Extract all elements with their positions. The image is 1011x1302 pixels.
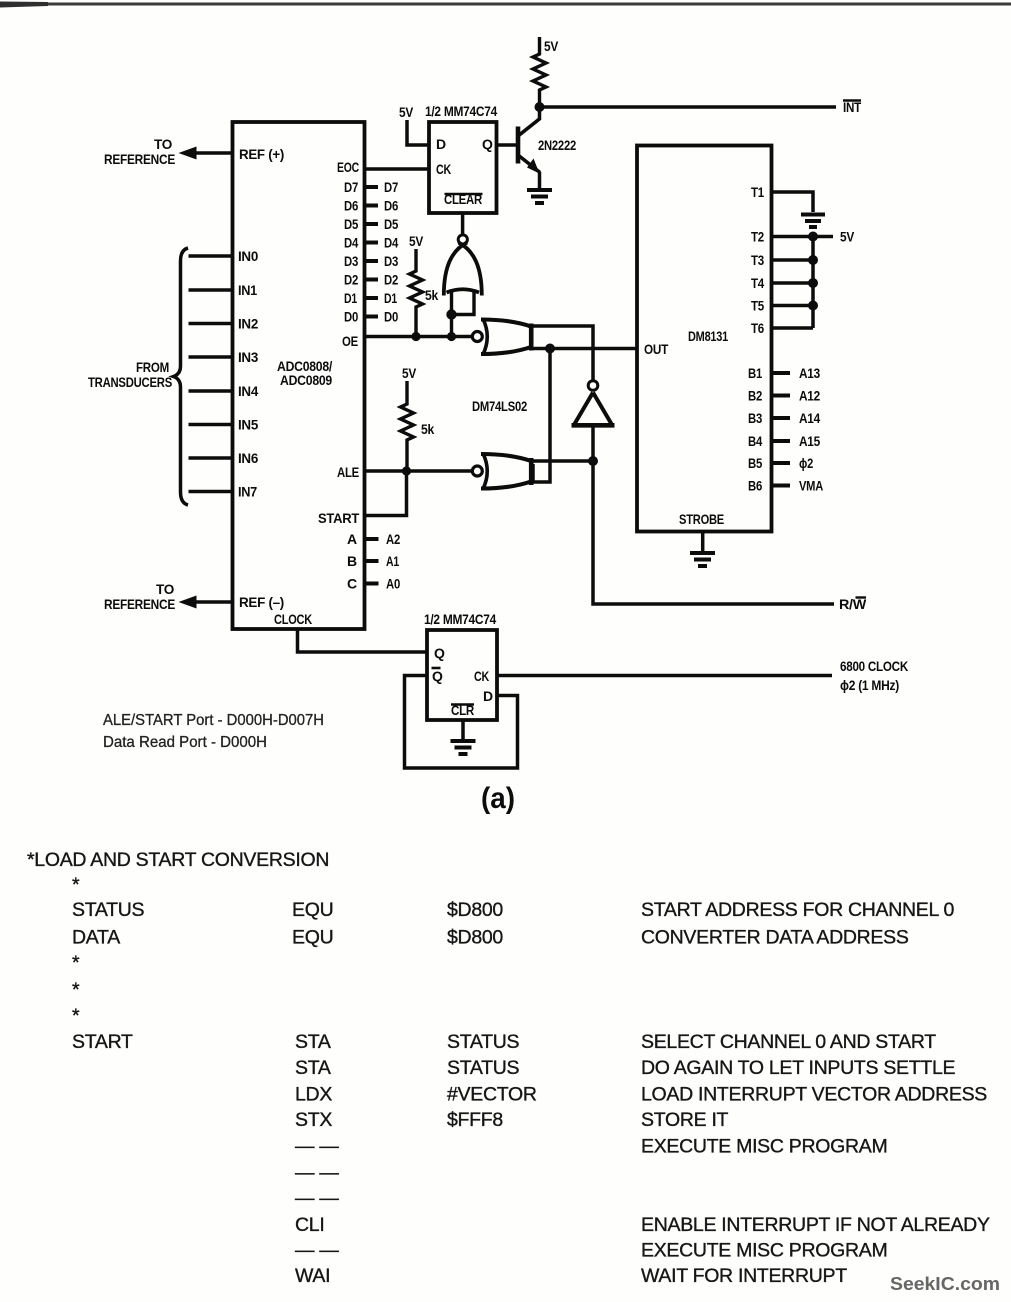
svg-text:FROM: FROM: [136, 359, 169, 375]
wire D6 stub: [365, 204, 379, 208]
wire U4 CLR to ground: [461, 720, 465, 739]
wire G3 feedback staple from G2 output: [533, 349, 550, 483]
ground at T1: [801, 215, 825, 228]
net label D3: [384, 253, 398, 269]
wire D3 stub: [365, 259, 379, 263]
svg-text:EOC: EOC: [337, 159, 359, 175]
pin label Qbar (U4): [432, 668, 444, 684]
assembly line STA STATUS: [295, 1057, 956, 1079]
svg-text:D5: D5: [344, 216, 358, 232]
wire T1 to ground: [772, 192, 814, 212]
svg-text:ENABLE INTERRUPT IF NOT ALREAD: ENABLE INTERRUPT IF NOT ALREADY: [641, 1214, 990, 1236]
junction T3 bus: [808, 255, 818, 265]
svg-text:Q: Q: [432, 668, 443, 684]
svg-text:T4: T4: [751, 275, 764, 291]
svg-text:D0: D0: [344, 309, 358, 325]
net label D5: [384, 216, 398, 232]
svg-text:D5: D5: [384, 216, 398, 232]
svg-text:*: *: [72, 874, 80, 896]
svg-text:TO: TO: [154, 136, 172, 152]
wire inverter input from G3 output node: [591, 426, 595, 462]
brace for transducer inputs: [174, 248, 189, 505]
svg-text:WAIT FOR INTERRUPT: WAIT FOR INTERRUPT: [641, 1265, 847, 1287]
wire C stub: [365, 582, 379, 586]
pin label IN7: [238, 484, 257, 500]
wire REF (-) lead: [190, 600, 233, 603]
pin label IN3: [238, 349, 258, 365]
pin label D3 (inside): [344, 253, 358, 269]
assembly line dashes 1: [295, 1136, 887, 1158]
svg-text:DM8131: DM8131: [688, 328, 728, 344]
svg-text:— —: — —: [295, 1240, 339, 1262]
svg-text:IN2: IN2: [238, 316, 258, 332]
wire D4 stub: [365, 241, 379, 245]
svg-text:ϕ2: ϕ2: [799, 455, 813, 471]
svg-text:IN7: IN7: [238, 484, 257, 500]
wire G3 output to inverter / R-W node: [532, 459, 594, 463]
pin label ALE: [337, 464, 359, 480]
pin label D0 (inside): [344, 309, 358, 325]
wire T4 to bus: [772, 281, 814, 285]
wire T2-T6 bus: [811, 237, 815, 329]
svg-text:DO AGAIN TO LET INPUTS SETTLE: DO AGAIN TO LET INPUTS SETTLE: [641, 1057, 956, 1079]
svg-text:T2: T2: [751, 229, 764, 245]
net label D0: [384, 309, 398, 325]
svg-text:2N2222: 2N2222: [538, 137, 576, 153]
svg-text:D4: D4: [344, 235, 358, 251]
svg-text:C: C: [347, 576, 357, 592]
wire U2 CLEAR to gate G1 output: [461, 213, 465, 235]
assembly line CLI: [295, 1214, 990, 1236]
pin label CK (U2): [436, 161, 451, 177]
wire B stub: [365, 559, 379, 563]
IC U2 1/2 MM74C74 body: [429, 122, 497, 213]
note Data Read port address: [103, 734, 267, 751]
pin label START: [318, 510, 360, 526]
svg-text:REFERENCE: REFERENCE: [104, 151, 175, 167]
pin label C: [347, 576, 357, 592]
wire U2 Q to Q1 base: [497, 143, 518, 146]
wire B3 stub: [772, 416, 791, 420]
transistor Q1 2N2222: [518, 119, 540, 174]
label U1 value ADC0808/ADC0809: [277, 358, 332, 388]
resistor R3 5k: [401, 381, 414, 471]
svg-text:B2: B2: [748, 388, 762, 404]
pin label Q (U2): [482, 136, 493, 152]
svg-text:CONVERTER DATA ADDRESS: CONVERTER DATA ADDRESS: [641, 927, 909, 949]
net label R/W: [839, 596, 867, 612]
svg-text:STORE IT: STORE IT: [641, 1109, 729, 1131]
arrow to reference (-): [179, 596, 197, 609]
svg-text:B6: B6: [748, 478, 762, 494]
label U3 value DM8131: [688, 328, 728, 344]
NOR gate G3 (DM74LS02 lower): [472, 454, 531, 490]
wire REF (+) lead: [190, 151, 233, 154]
wire Q1 emitter down to ground: [538, 172, 542, 189]
pin label D1 (inside): [344, 290, 357, 306]
svg-text:A14: A14: [799, 410, 820, 426]
pin label B5: [748, 455, 762, 471]
pin label B4: [748, 433, 762, 449]
assembly comment star 4: [72, 1005, 80, 1027]
wire IN5 stub: [189, 423, 233, 426]
svg-text:TO: TO: [156, 581, 174, 597]
svg-text:T1: T1: [751, 184, 764, 200]
label R2 value 5k: [425, 287, 438, 303]
svg-text:6800 CLOCK: 6800 CLOCK: [840, 658, 908, 674]
svg-text:EQU: EQU: [292, 927, 333, 949]
power 5V at T2: [840, 229, 855, 245]
wire G2 feedback input (to inverter output): [528, 326, 593, 380]
svg-text:SELECT CHANNEL 0 AND START: SELECT CHANNEL 0 AND START: [641, 1031, 936, 1053]
label FROM TRANSDUCERS: [88, 359, 172, 390]
svg-text:5k: 5k: [425, 287, 438, 303]
svg-text:1/2 MM74C74: 1/2 MM74C74: [424, 611, 496, 627]
pin label D6 (inside): [344, 198, 358, 214]
pin label REF (+): [239, 146, 284, 162]
wire STROBE to ground: [701, 532, 705, 552]
svg-text:5V: 5V: [840, 229, 855, 245]
svg-text:DATA: DATA: [72, 927, 120, 949]
power 5V at resistor R1: [544, 38, 559, 54]
svg-text:5V: 5V: [544, 38, 559, 54]
wire T3 to bus: [772, 258, 814, 262]
assembly comment star 1: [72, 874, 80, 896]
power 5V at resistor R3: [402, 365, 417, 381]
svg-text:A0: A0: [386, 576, 400, 592]
svg-text:*: *: [72, 1005, 80, 1027]
svg-text:WAI: WAI: [295, 1265, 330, 1287]
svg-text:STATUS: STATUS: [447, 1057, 520, 1079]
svg-text:D2: D2: [344, 272, 358, 288]
wire IN4 stub: [189, 389, 233, 392]
junction T2 bus: [808, 232, 818, 242]
junction G1 staple: [446, 309, 456, 319]
svg-text:START ADDRESS FOR CHANNEL 0: START ADDRESS FOR CHANNEL 0: [641, 899, 954, 921]
svg-text:$D800: $D800: [447, 927, 503, 949]
svg-text:START: START: [72, 1031, 133, 1053]
wire ALE to NOR gate G3 input: [365, 469, 473, 473]
assembly line LDX VECTOR: [295, 1084, 987, 1106]
junction G3 output node: [588, 456, 598, 466]
svg-text:$FFF8: $FFF8: [447, 1109, 503, 1131]
svg-text:START: START: [318, 510, 360, 526]
svg-text:CLOCK: CLOCK: [274, 611, 312, 627]
wire B1 stub: [772, 371, 791, 375]
wire T6 to bus: [772, 326, 814, 330]
net label D4: [384, 235, 398, 251]
wire A stub: [365, 537, 379, 541]
svg-text:ADC0809: ADC0809: [280, 372, 332, 388]
wire T2 to 5V: [772, 235, 834, 239]
wire D5 stub: [365, 222, 379, 226]
svg-text:CLI: CLI: [295, 1214, 324, 1236]
note ALE/START port address: [103, 712, 324, 729]
svg-text:T5: T5: [751, 298, 764, 314]
wire B2 stub: [772, 394, 791, 398]
svg-text:D7: D7: [344, 179, 358, 195]
svg-text:ϕ2 (1 MHz): ϕ2 (1 MHz): [840, 677, 899, 693]
wire IN2 stub: [189, 322, 233, 325]
svg-text:DM74LS02: DM74LS02: [472, 398, 527, 414]
svg-text:B: B: [347, 553, 357, 569]
pin label D2 (inside): [344, 272, 358, 288]
svg-text:IN5: IN5: [238, 417, 258, 433]
svg-text:#VECTOR: #VECTOR: [447, 1084, 537, 1106]
pin label STROBE: [679, 511, 724, 527]
net label A0: [386, 576, 400, 592]
label U4 value 1/2 MM74C74: [424, 611, 496, 627]
pin label T5: [751, 298, 764, 314]
pin label D4 (inside): [344, 235, 358, 251]
wire D2 stub: [365, 278, 379, 282]
svg-text:CK: CK: [474, 668, 489, 684]
pin label CLR (U4, active low): [451, 702, 474, 718]
label TO REFERENCE (top): [104, 136, 175, 167]
svg-text:Q: Q: [482, 136, 493, 152]
svg-text:D0: D0: [384, 309, 398, 325]
svg-text:5k: 5k: [421, 421, 434, 437]
net label D6: [384, 198, 398, 214]
pin label B: [347, 553, 357, 569]
wire IN6 stub: [189, 456, 233, 459]
wire 5V to U2 D: [407, 120, 429, 145]
wire Q1 collector to INT node: [538, 107, 542, 120]
svg-text:OUT: OUT: [644, 341, 669, 357]
wire G1 left input down to OE: [450, 291, 453, 337]
svg-text:(a): (a): [481, 782, 515, 815]
pin label CK (U4): [474, 668, 489, 684]
wire CLOCK to U4 Q: [298, 629, 428, 652]
svg-text:D7: D7: [384, 179, 398, 195]
wire INT line: [540, 105, 837, 109]
assembly line dashes 2: [295, 1162, 339, 1184]
label DM74LS02: [472, 398, 527, 414]
pin label IN1: [238, 282, 257, 298]
resistor R2 5k: [410, 249, 423, 337]
assembly line WAI: [295, 1265, 847, 1287]
assembly line dashes 4: [295, 1240, 887, 1262]
assembly line dashes 3: [295, 1188, 339, 1210]
net label D1: [384, 290, 397, 306]
pin label Q (U4): [434, 645, 445, 661]
svg-text:D3: D3: [344, 253, 358, 269]
label U2 value 1/2 MM74C74: [425, 103, 497, 119]
wire U4 CK to 6800 clock: [497, 674, 832, 678]
power 5V at resistor R2: [409, 233, 424, 249]
wire G1 right input staple: [452, 291, 474, 315]
svg-text:STATUS: STATUS: [72, 899, 145, 921]
svg-text:TRANSDUCERS: TRANSDUCERS: [88, 374, 172, 390]
svg-text:A1: A1: [386, 553, 399, 569]
junction ALE / resistor R3 / START: [402, 466, 411, 475]
svg-text:A13: A13: [799, 365, 820, 381]
ground at STROBE: [690, 553, 715, 566]
svg-text:D6: D6: [384, 198, 398, 214]
net label 6800 CLOCK: [840, 658, 908, 693]
svg-text:D3: D3: [384, 253, 398, 269]
pin label D (U4): [483, 688, 493, 704]
arrow to reference (+): [179, 147, 197, 160]
pin label OE: [342, 333, 358, 349]
assembly comment star 3: [72, 979, 80, 1001]
svg-text:— —: — —: [295, 1136, 339, 1158]
svg-text:SeekIC.com: SeekIC.com: [890, 1274, 1000, 1294]
label TO REFERENCE (bottom): [104, 581, 175, 612]
pin label IN5: [238, 417, 258, 433]
assembly line DATA EQU: [72, 927, 909, 949]
pin label T2: [751, 229, 764, 245]
wire START to ALE node: [365, 471, 407, 516]
svg-text:EXECUTE MISC PROGRAM: EXECUTE MISC PROGRAM: [641, 1240, 887, 1262]
watermark SeekIC.com: [890, 1274, 1000, 1294]
wire D7 stub: [365, 185, 379, 189]
svg-text:Data Read Port - D000H: Data Read Port - D000H: [103, 734, 267, 751]
pin label T4: [751, 275, 764, 291]
IC U3 DM8131 body: [637, 146, 772, 532]
net label A2: [386, 531, 400, 547]
figure label (a): [481, 782, 515, 815]
power 5V for U2 D input: [399, 104, 414, 120]
assembly comment star 2: [72, 952, 80, 974]
pin label OUT: [644, 341, 669, 357]
wire D1 stub: [365, 296, 379, 300]
pin label CLEAR (U2, active low): [444, 191, 483, 207]
svg-text:ALE: ALE: [337, 464, 359, 480]
net label A15: [799, 433, 820, 449]
net label D2: [384, 272, 398, 288]
svg-text:STROBE: STROBE: [679, 511, 724, 527]
svg-text:— —: — —: [295, 1188, 339, 1210]
pin label CLOCK: [274, 611, 312, 627]
svg-text:D1: D1: [344, 290, 357, 306]
pin label EOC: [337, 159, 359, 175]
pin label T6: [751, 320, 764, 336]
page top rule: [0, 2, 1011, 8]
assembly listing title: [27, 849, 329, 871]
svg-text:STATUS: STATUS: [447, 1031, 520, 1053]
junction G2 output node: [545, 344, 555, 354]
net label A13: [799, 365, 820, 381]
svg-text:5V: 5V: [409, 233, 424, 249]
wire IN3 stub: [189, 355, 233, 358]
wire B5 stub: [772, 461, 791, 465]
wire B6 stub: [772, 484, 791, 488]
label Q1 value 2N2222: [538, 137, 576, 153]
wire R/W line: [593, 461, 834, 604]
junction OE / resistor R2: [411, 332, 420, 341]
pin label IN2: [238, 316, 258, 332]
net label D7: [384, 179, 398, 195]
junction T4 bus: [808, 278, 818, 288]
svg-text:EQU: EQU: [292, 899, 333, 921]
svg-text:$D800: $D800: [447, 899, 503, 921]
net label INT (active low): [843, 99, 862, 115]
svg-text:B5: B5: [748, 455, 762, 471]
svg-text:*: *: [72, 952, 80, 974]
svg-text:IN6: IN6: [238, 450, 258, 466]
label R3 value 5k: [421, 421, 434, 437]
svg-text:A12: A12: [799, 388, 820, 404]
ground at U4 CLR: [451, 741, 476, 754]
svg-text:A2: A2: [386, 531, 400, 547]
pin label IN4: [238, 383, 258, 399]
wire D0 stub: [365, 315, 379, 319]
pin label B2: [748, 388, 762, 404]
wire OE to NOR gate G2 input: [365, 335, 473, 339]
svg-text:B4: B4: [748, 433, 762, 449]
svg-text:T6: T6: [751, 320, 764, 336]
pin label B1: [748, 365, 762, 381]
junction OE / gate G1 input: [447, 332, 456, 341]
pin label B3: [748, 410, 762, 426]
svg-text:IN4: IN4: [238, 383, 258, 399]
svg-text:OE: OE: [342, 333, 358, 349]
wire IN1 stub: [189, 288, 233, 291]
svg-text:VMA: VMA: [799, 478, 823, 494]
wire G2 output to DM8131 OUT: [532, 347, 638, 351]
pin label T3: [751, 252, 764, 268]
svg-text:5V: 5V: [402, 365, 417, 381]
svg-text:D: D: [436, 136, 446, 152]
IC U1 ADC0808/ADC0809 body: [233, 122, 365, 629]
IC U4 1/2 MM74C74 body: [427, 630, 497, 720]
junction T5 bus: [808, 301, 818, 311]
pin label D (U2): [436, 136, 446, 152]
svg-text:REFERENCE: REFERENCE: [104, 596, 175, 612]
svg-text:REF (–): REF (–): [239, 594, 284, 610]
NOR gate G1 (vertical, output bubble up): [444, 235, 482, 296]
svg-text:— —: — —: [295, 1162, 339, 1184]
assembly line STATUS EQU: [72, 899, 954, 921]
svg-text:EXECUTE MISC PROGRAM: EXECUTE MISC PROGRAM: [641, 1136, 887, 1158]
svg-text:STA: STA: [295, 1031, 331, 1053]
wire IN7 stub: [189, 490, 233, 493]
pin label A: [347, 531, 357, 547]
svg-text:CK: CK: [436, 161, 451, 177]
svg-text:LOAD INTERRUPT VECTOR ADDRESS: LOAD INTERRUPT VECTOR ADDRESS: [641, 1084, 987, 1106]
svg-text:D4: D4: [384, 235, 398, 251]
svg-text:STA: STA: [295, 1057, 331, 1079]
pin label IN0: [238, 248, 258, 264]
svg-text:STX: STX: [295, 1109, 332, 1131]
svg-text:IN3: IN3: [238, 349, 258, 365]
resistor R1 pull-up: [533, 37, 546, 107]
pin label T1: [751, 184, 764, 200]
wire U4 D to Qbar feedback loop: [405, 676, 518, 769]
pin label D7 (inside): [344, 179, 358, 195]
svg-text:D6: D6: [344, 198, 358, 214]
NOR gate G2 (DM74LS02 upper): [472, 319, 531, 355]
svg-text:T3: T3: [751, 252, 764, 268]
svg-text:A15: A15: [799, 433, 820, 449]
svg-text:5V: 5V: [399, 104, 414, 120]
svg-text:1/2 MM74C74: 1/2 MM74C74: [425, 103, 497, 119]
svg-text:D: D: [483, 688, 493, 704]
svg-text:IN0: IN0: [238, 248, 258, 264]
wire IN0 stub: [189, 254, 233, 257]
junction INT node: [535, 102, 545, 112]
svg-text:D1: D1: [384, 290, 397, 306]
svg-text:D2: D2: [384, 272, 398, 288]
net label A1: [386, 553, 399, 569]
net label phi2: [799, 455, 813, 471]
wire T5 to bus: [772, 304, 814, 308]
svg-text:LDX: LDX: [295, 1084, 332, 1106]
pin label B6: [748, 478, 762, 494]
svg-text:REF (+): REF (+): [239, 146, 284, 162]
wire EOC to CK of U2: [365, 167, 430, 171]
